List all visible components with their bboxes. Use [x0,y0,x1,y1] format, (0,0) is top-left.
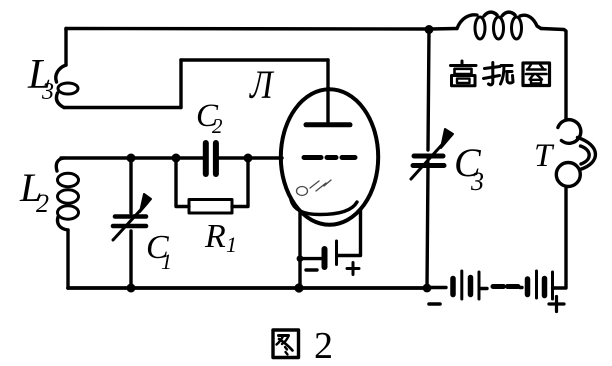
junction: bottom rail / C3 branch [423,284,432,293]
tube grid (dashed) [304,155,355,160]
label tube Л [249,62,274,106]
junction: filament battery minus node [297,255,304,262]
wire: C3 down to bottom rail [427,166,428,288]
junction: bottom rail / filament lead [294,283,303,292]
label plus (B1) [347,263,359,275]
wire: choke to phones [541,29,566,120]
wire: bottom rail [68,286,426,290]
caption 图 [273,330,299,358]
svg-text:3: 3 [470,167,484,196]
caption numeral 2 [314,325,333,366]
label minus (B1) [306,268,317,271]
label C2 [196,98,223,138]
inductor L3 [56,65,78,108]
tube filament [291,200,357,215]
battery B2 (plate supply) [427,271,554,299]
junction: mid rail / C1 top [127,154,136,163]
svg-text:Л: Л [249,62,274,106]
label C1 [146,229,172,274]
pencil scribble inside tube [297,180,332,196]
wire: filament left lead [298,212,301,288]
label L2 [19,165,49,218]
svg-text:3: 3 [41,79,54,105]
label plus (B2) [549,297,564,312]
wire: step horizontal to plate lead [181,58,328,61]
junction: mid rail / R1 right [244,154,253,163]
label T [534,138,555,174]
RF choke coil [457,12,541,39]
wire: L3 bottom to step corner [64,106,181,109]
wire: filament right lead [338,209,361,256]
wire: top rail (L3 top to choke junction) [66,29,457,31]
wire: phones down to battery plus [554,187,566,289]
svg-text:1: 1 [226,232,237,257]
resistor R1 [176,158,248,213]
tube plate [306,122,350,127]
wire: L2 bottom lead [66,230,69,288]
junction: top rail / C3 branch [425,25,434,34]
junction: mid rail / R1 left [172,154,181,163]
label L3 [27,52,54,105]
label C3 [454,140,484,196]
svg-text:2: 2 [314,325,333,366]
svg-text:T: T [534,138,555,174]
label R1 [204,218,237,257]
capacitor C2 [206,143,216,174]
headphones T [556,120,595,187]
wire: C2 to tube grid [219,156,282,159]
junction: bottom rail / C1 bottom [127,284,136,293]
svg-text:1: 1 [161,249,172,274]
label minus (B2) [429,302,440,306]
vacuum tube envelope [281,89,378,224]
capacitor C3 (variable) [411,129,453,179]
wire: mid rail L2 top to C2 [61,156,203,159]
wire: L3 top lead [64,29,67,66]
label 高扼圈 (RF choke) [451,61,550,86]
capacitor C1 (variable) with leads [113,158,151,288]
battery B1 (filament) [300,241,337,267]
svg-text:R: R [204,218,226,255]
wire: plate lead into tube [326,60,329,122]
svg-text:2: 2 [212,114,223,138]
wire: step vertical [179,60,182,108]
svg-text:2: 2 [36,189,49,218]
inductor L2 [56,158,78,230]
wire: top junction down to C3 [428,30,429,151]
